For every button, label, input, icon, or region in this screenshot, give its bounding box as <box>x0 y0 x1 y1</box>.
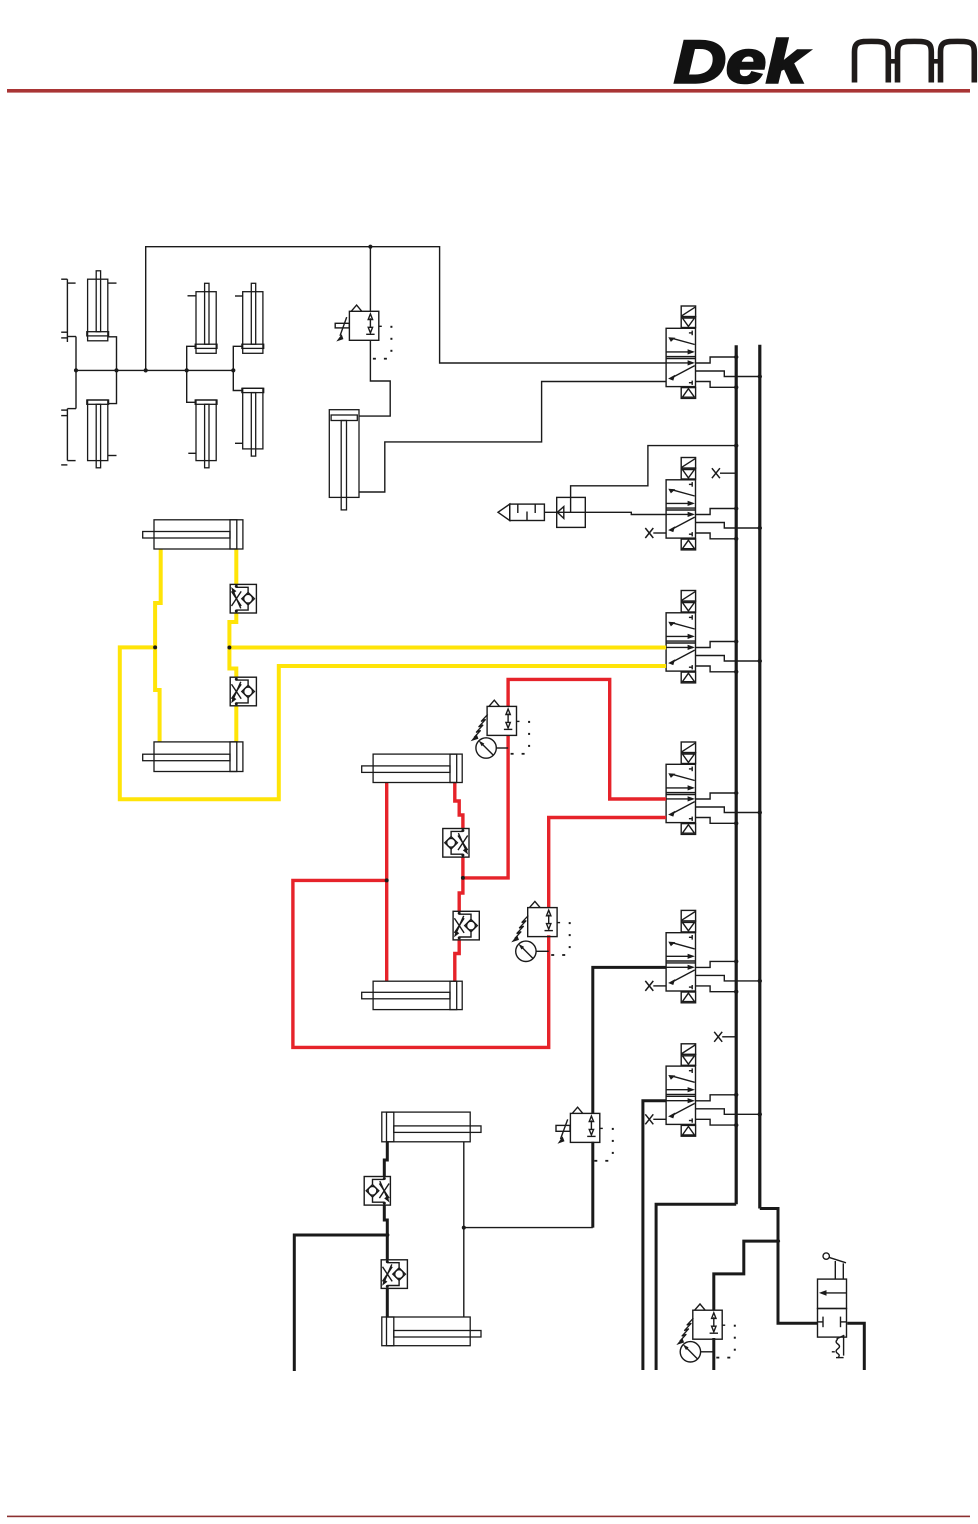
wire: lever valve out dangling <box>847 1323 864 1370</box>
footer rule <box>7 1516 970 1518</box>
node: regulator tap dot <box>368 245 372 249</box>
cylinder R4 (horizontal, rod left) <box>362 981 463 1009</box>
V2 pilot X plug <box>712 468 736 478</box>
gauge G3 <box>516 941 549 961</box>
regulator R5 <box>676 1304 736 1359</box>
flow control F2 (yellow lower) <box>230 677 256 706</box>
cylinder A2 (pair1 bottom, rod down) <box>87 400 117 468</box>
regulator R4 <box>556 1107 614 1162</box>
wire: bus1 bottom dangling <box>656 1204 736 1370</box>
wire: to cylinders right ports <box>464 1142 593 1317</box>
lever valve (3/2 manual) <box>818 1253 847 1358</box>
wire: branch to lever valve <box>778 1241 817 1323</box>
red wire: V4 port A through regulator R2 <box>508 679 666 799</box>
wire: V5 port A to regulator R4 <box>593 967 666 1113</box>
header rule <box>7 89 970 93</box>
cylinder B1 (pair2 top, rod up) <box>188 283 218 353</box>
check valve block <box>557 497 586 527</box>
yellow wire: fc chain upper <box>234 549 238 584</box>
V4 bus connections <box>696 791 763 826</box>
red wire: cylinder R3 right port down to fc chain <box>455 783 463 830</box>
gauge G5 <box>680 1342 714 1362</box>
manifold junction dots <box>74 368 236 372</box>
svg-text:Dek: Dek <box>674 29 809 96</box>
red wire: cylinder R3 left port to cylinder R4 left port <box>385 783 388 982</box>
wire: silencer/check to V2 port A <box>544 512 666 514</box>
V6 port B X plug <box>645 1114 666 1124</box>
gauge G2 <box>476 738 508 758</box>
red wire: V4 port B big loop through regulator R3 <box>549 818 666 908</box>
wire: tap down to regulator R1 <box>369 247 371 312</box>
cylinder B2 (pair2 bottom, rod down) <box>188 400 217 468</box>
red junction dots <box>385 876 465 883</box>
cylinder A1 (pair1 top, rod up) <box>87 271 117 341</box>
wire: bus2 bottom to pilot cluster <box>760 1209 778 1242</box>
manifold wire <box>76 369 233 371</box>
flow control F4 (red lower, line left) <box>453 911 479 940</box>
yellow junction dots <box>153 645 231 649</box>
V2 port B X plug <box>645 528 666 538</box>
flow control F5 (black upper, line right) <box>364 1177 390 1206</box>
V6 bus connections <box>696 1093 763 1128</box>
silencer <box>498 504 544 520</box>
cylinder B5 (horizontal, rod right) <box>382 1112 481 1142</box>
bus1 plugged tap X <box>714 1032 736 1042</box>
regulator R2 <box>471 700 530 755</box>
cylinder Y1 (horizontal, rod left) <box>143 520 243 549</box>
cylinder C1 (pair3 top, rod up) <box>235 283 264 353</box>
yellow wire: fc chain lower to cylinder Y2 <box>234 706 238 742</box>
V5 bus connections <box>696 959 763 994</box>
flow control F3 (red upper, line right) <box>443 829 469 858</box>
cylinder C2 (pair3 bottom, rod down) <box>235 388 264 456</box>
DEK arches mark <box>855 41 975 82</box>
wire pair3 to manifold <box>233 346 242 390</box>
supply wire from manifold up and across the top <box>146 247 666 371</box>
cylinder Y2 (horizontal, rod left) <box>143 742 243 772</box>
wire: dangling loop left <box>294 1235 387 1371</box>
V2 bus connections <box>696 506 763 541</box>
V3 bus connections <box>696 639 763 674</box>
flow control F1 (yellow upper) <box>230 584 256 613</box>
cylinder B6 (horizontal, rod right) <box>382 1317 481 1346</box>
wire: cylinder B5 left port down fc chain <box>384 1142 387 1177</box>
bus 2 <box>758 345 761 1209</box>
wire: V6 port A dangling <box>643 1101 666 1370</box>
V5 port B X plug <box>645 981 666 991</box>
DEK logo <box>674 29 809 96</box>
wire pair1 to manifold <box>108 337 117 404</box>
yellow wire: left branch up to cylinder Y1 <box>155 549 161 647</box>
yellow wire: left branch down to cylinder Y2 <box>155 647 160 742</box>
wire: regulator R1 down to cylinder T1 top port <box>359 340 390 416</box>
yellow wire: V3 port B big loop <box>120 647 666 799</box>
V1 bus connections <box>696 355 763 390</box>
wire pair2 to manifold <box>187 346 196 402</box>
cylinder R3 (horizontal, rod left) <box>362 754 463 782</box>
V2 supply branch from bus 1 <box>571 443 739 497</box>
bus 1 <box>735 345 738 1204</box>
wire: branch to regulator R5 <box>714 1241 778 1310</box>
yellow wire: V3 port A to flow controls <box>229 646 666 650</box>
yoke bracket left <box>61 279 76 465</box>
wire: cylinder T1 bottom port to valve V1 port B <box>359 382 666 493</box>
regulator R3 <box>511 901 571 956</box>
wire: regulator R4 down <box>591 1142 594 1228</box>
flow control F6 (black lower, line left) <box>381 1260 407 1289</box>
